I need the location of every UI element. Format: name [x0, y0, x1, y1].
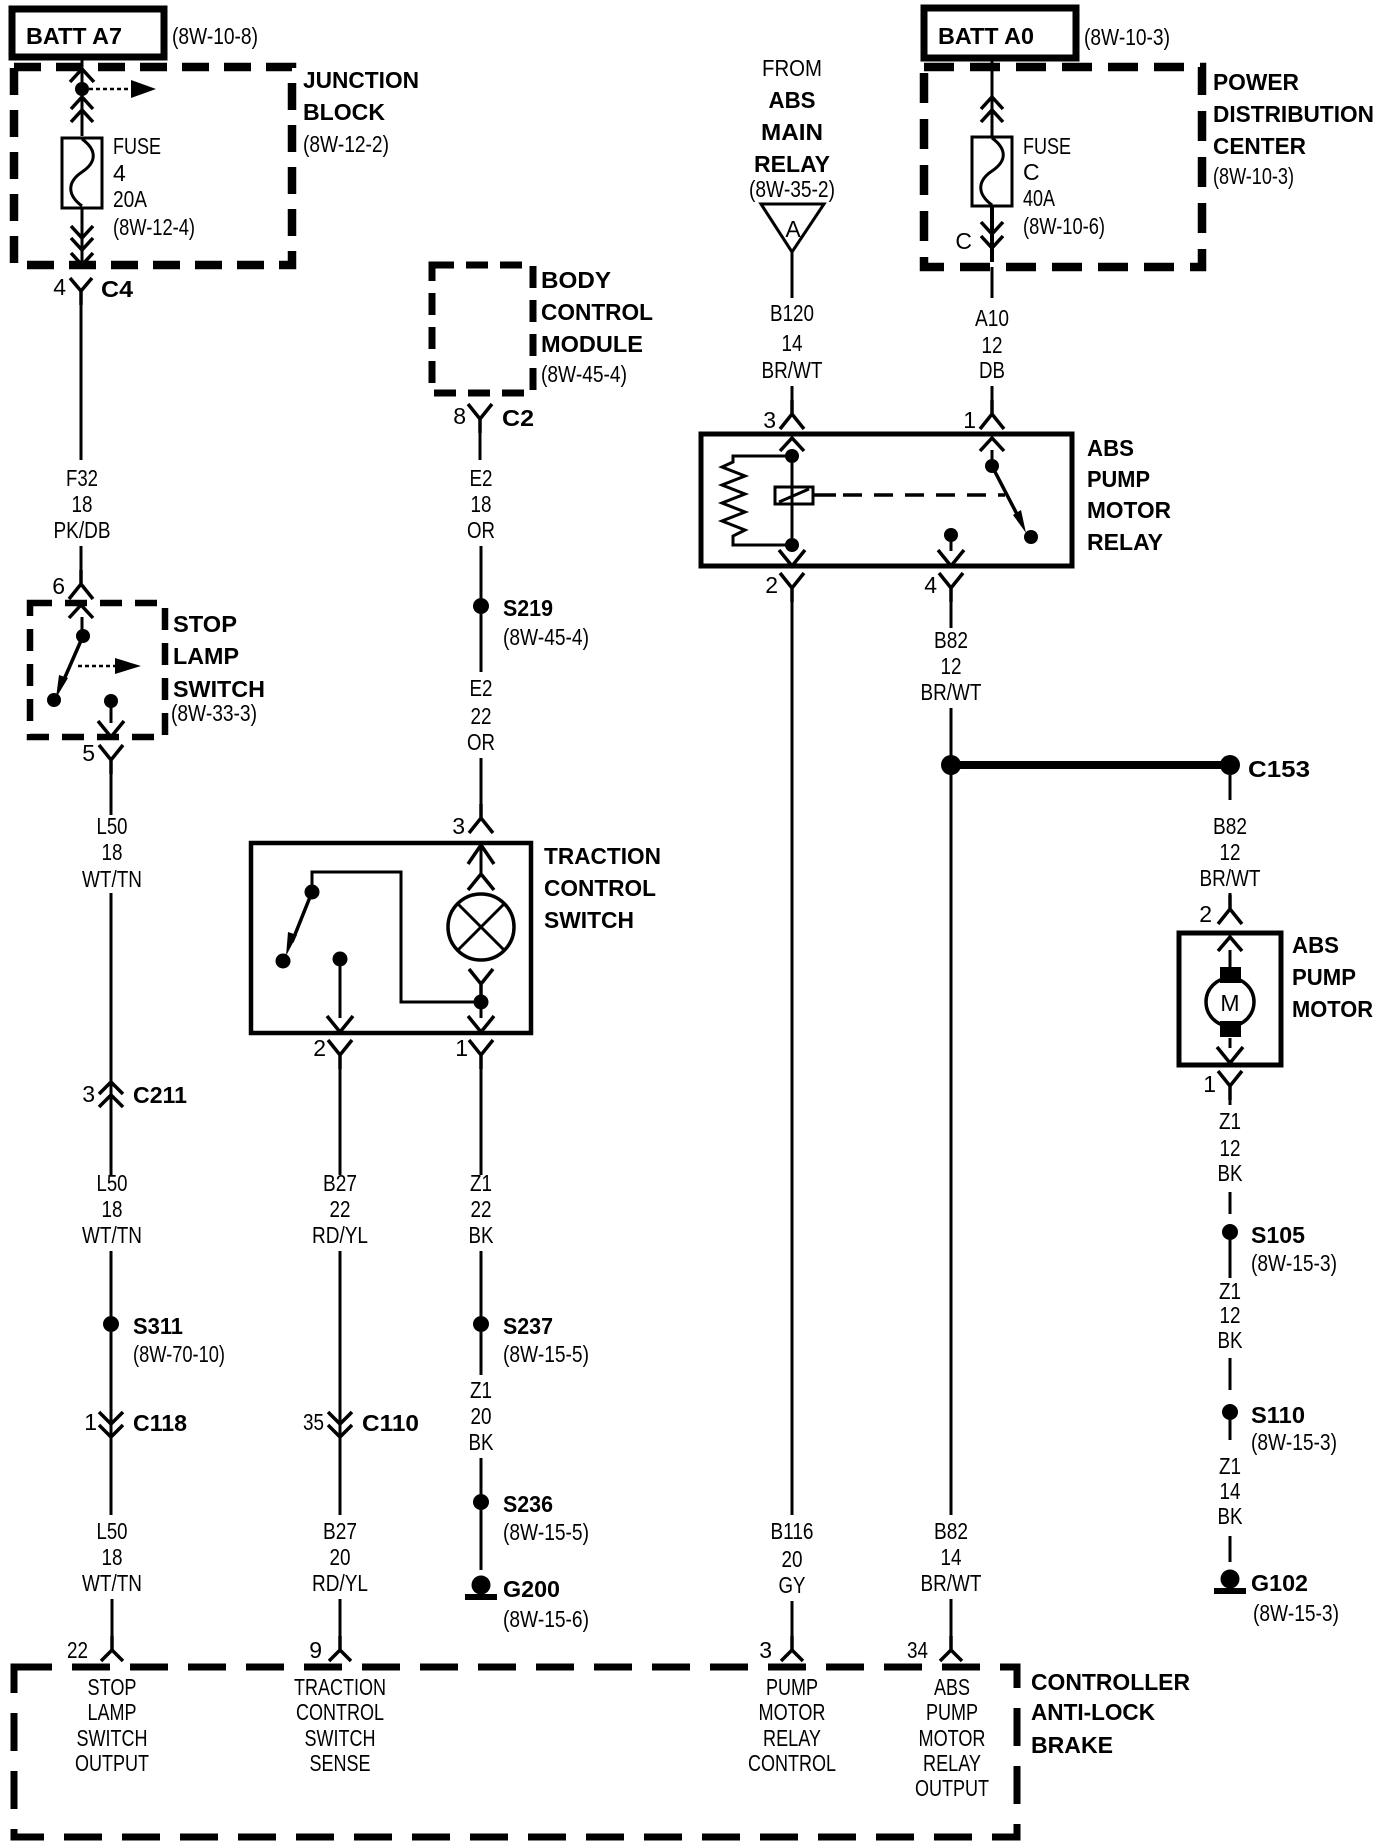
svg-text:3: 3 — [759, 1637, 772, 1663]
svg-text:(8W-15-3): (8W-15-3) — [1253, 1600, 1339, 1626]
fuse C 40A — [972, 137, 1012, 206]
svg-text:BLOCK: BLOCK — [303, 99, 385, 125]
svg-text:RD/YL: RD/YL — [312, 1222, 368, 1248]
svg-text:1: 1 — [455, 1035, 468, 1061]
svg-text:Z1: Z1 — [1219, 1453, 1241, 1479]
lamp output Y — [469, 969, 493, 1002]
svg-text:(8W-10-6): (8W-10-6) — [1023, 213, 1105, 239]
svg-text:MOTOR: MOTOR — [1292, 996, 1373, 1022]
indicator lamp — [448, 894, 514, 960]
svg-text:FUSE: FUSE — [1023, 133, 1071, 159]
svg-text:40A: 40A — [1023, 185, 1056, 211]
wire to connector C153 — [951, 761, 1230, 769]
relay pin 4 contact — [944, 528, 958, 542]
svg-text:BR/WT: BR/WT — [762, 357, 823, 383]
wire to motor pin 2 — [1229, 893, 1232, 895]
svg-text:12: 12 — [1220, 1302, 1241, 1328]
node splice in junction block — [75, 82, 89, 96]
svg-text:6: 6 — [52, 573, 65, 599]
svg-text:POWER: POWER — [1213, 69, 1299, 95]
svg-text:2: 2 — [313, 1035, 326, 1061]
chevron relay pin 3 — [780, 438, 804, 451]
svg-text:STOP: STOP — [173, 611, 237, 637]
svg-text:(8W-33-3): (8W-33-3) — [171, 700, 257, 726]
svg-text:RD/YL: RD/YL — [312, 1570, 368, 1596]
relay switch throw contact — [1024, 530, 1038, 544]
svg-text:BR/WT: BR/WT — [1200, 865, 1261, 891]
wire to stop lamp switch — [80, 546, 83, 570]
wire from BATT A7 into junction block — [81, 57, 84, 136]
stop lamp switch output contact — [104, 694, 118, 708]
chevron motor pin 2 — [1218, 937, 1242, 951]
splice S311 — [103, 1316, 119, 1332]
svg-text:RELAY: RELAY — [754, 151, 830, 177]
svg-text:RELAY: RELAY — [1087, 529, 1163, 555]
splice S219 — [473, 598, 489, 614]
motor brush top — [1220, 967, 1241, 983]
double chevron up above fuse — [71, 97, 93, 109]
wire relay pin 4 down — [950, 601, 953, 628]
wire to S236 — [480, 1458, 483, 1494]
connector C110 — [328, 1412, 352, 1424]
svg-text:LAMP: LAMP — [173, 643, 239, 669]
svg-text:S311: S311 — [133, 1313, 183, 1339]
wire to relay pin 1 — [991, 386, 994, 400]
connector C118 — [99, 1412, 123, 1424]
svg-text:ABS: ABS — [1292, 932, 1339, 958]
svg-text:MOTOR: MOTOR — [1087, 497, 1171, 523]
TCS internal wire — [312, 872, 474, 1002]
wire below S237 — [480, 1332, 483, 1375]
relay switch arm — [992, 466, 1020, 520]
TCS switch moving contact — [276, 954, 291, 969]
wire below triangle — [791, 252, 794, 298]
svg-text:A: A — [785, 216, 801, 242]
double chevron inside TCS — [468, 845, 494, 864]
svg-text:BK: BK — [1218, 1160, 1244, 1186]
ABS pump motor box — [1179, 933, 1281, 1065]
svg-text:14: 14 — [941, 1544, 962, 1570]
svg-text:4: 4 — [113, 160, 126, 186]
connector relay pin 2 — [780, 573, 804, 602]
svg-text:14: 14 — [1220, 1478, 1241, 1504]
svg-text:CONTROL: CONTROL — [544, 875, 656, 901]
svg-text:A10: A10 — [975, 305, 1009, 331]
svg-text:S105: S105 — [1251, 1222, 1305, 1248]
double chevron down below fuse — [71, 226, 93, 238]
svg-text:CONTROL: CONTROL — [541, 299, 653, 325]
TCS pole 2 contact — [333, 952, 348, 967]
splice S110 — [1222, 1404, 1238, 1420]
svg-text:BODY: BODY — [541, 267, 611, 293]
svg-text:20: 20 — [471, 1403, 492, 1429]
svg-text:(8W-10-3): (8W-10-3) — [1213, 163, 1294, 189]
TCS node — [474, 995, 489, 1010]
svg-text:22: 22 — [471, 703, 492, 729]
svg-text:MOTOR: MOTOR — [919, 1725, 986, 1751]
relay coil top node — [785, 449, 799, 463]
svg-text:12: 12 — [1220, 839, 1241, 865]
svg-text:(8W-15-6): (8W-15-6) — [503, 1606, 589, 1632]
terminal C of PDC — [981, 222, 1003, 234]
svg-text:5: 5 — [82, 740, 95, 766]
connector C153 — [1220, 755, 1240, 775]
svg-text:S219: S219 — [503, 595, 553, 621]
svg-text:DISTRIBUTION: DISTRIBUTION — [1213, 101, 1374, 127]
wire to S311 — [110, 1251, 113, 1316]
svg-text:TRACTION: TRACTION — [294, 1674, 386, 1700]
svg-text:E2: E2 — [470, 675, 493, 701]
wire to S219 — [480, 546, 483, 598]
svg-text:BK: BK — [1218, 1503, 1244, 1529]
connector C4 — [71, 253, 93, 265]
svg-text:ANTI-LOCK: ANTI-LOCK — [1031, 1699, 1155, 1725]
relay coil resistor — [722, 456, 792, 545]
wire S311 to C118 — [110, 1332, 113, 1515]
wire below C2 — [479, 433, 482, 460]
svg-text:SWITCH: SWITCH — [173, 676, 265, 702]
svg-text:3: 3 — [82, 1081, 95, 1107]
svg-text:G102: G102 — [1251, 1570, 1308, 1596]
svg-text:12: 12 — [941, 653, 962, 679]
svg-text:MAIN: MAIN — [761, 119, 823, 145]
svg-text:35: 35 — [303, 1409, 324, 1435]
connector CAB pin 22 — [101, 1636, 123, 1661]
arrow TCS pin 1 — [480, 1009, 483, 1018]
svg-text:TRACTION: TRACTION — [544, 843, 661, 869]
svg-text:4: 4 — [924, 572, 937, 598]
svg-text:E2: E2 — [470, 465, 493, 491]
connector pin 6 — [69, 570, 93, 599]
svg-text:(8W-15-3): (8W-15-3) — [1251, 1429, 1337, 1455]
svg-text:22: 22 — [330, 1196, 351, 1222]
svg-text:Z1: Z1 — [470, 1377, 492, 1403]
svg-text:18: 18 — [72, 491, 93, 517]
svg-text:M: M — [1220, 990, 1239, 1016]
wire to C153 junction — [950, 708, 953, 765]
junction block box — [14, 67, 292, 265]
svg-text:DB: DB — [979, 357, 1005, 383]
svg-text:OUTPUT: OUTPUT — [75, 1750, 149, 1776]
svg-text:CENTER: CENTER — [1213, 133, 1306, 159]
svg-text:(8W-15-3): (8W-15-3) — [1251, 1250, 1337, 1276]
wire below S105 — [1229, 1240, 1232, 1278]
svg-text:18: 18 — [471, 491, 492, 517]
svg-text:L50: L50 — [97, 1170, 128, 1196]
svg-text:WT/TN: WT/TN — [82, 1570, 142, 1596]
svg-text:CONTROLLER: CONTROLLER — [1031, 1669, 1190, 1695]
double chevron up above fuse C — [981, 97, 1003, 109]
controller anti-lock brake box — [14, 1667, 1017, 1837]
svg-text:PUMP: PUMP — [926, 1699, 978, 1725]
svg-text:2: 2 — [1199, 901, 1212, 927]
svg-text:8: 8 — [453, 403, 466, 429]
svg-text:(8W-45-4): (8W-45-4) — [541, 361, 627, 387]
svg-text:(8W-15-5): (8W-15-5) — [503, 1519, 589, 1545]
junction node at C153 — [941, 755, 961, 775]
svg-text:PUMP: PUMP — [766, 1674, 818, 1700]
svg-text:C118: C118 — [133, 1410, 187, 1436]
wire below motor — [1229, 1100, 1232, 1105]
arrow relay pin 4 — [938, 550, 964, 566]
svg-text:L50: L50 — [97, 1518, 128, 1544]
wire to G200 — [480, 1510, 483, 1570]
wire to CAB pin 3 — [791, 1601, 794, 1640]
svg-text:JUNCTION: JUNCTION — [303, 67, 419, 93]
wire below S219 — [480, 614, 483, 672]
svg-text:(8W-10-8): (8W-10-8) — [172, 23, 258, 49]
chevron inside stop lamp switch — [69, 605, 93, 618]
svg-text:MOTOR: MOTOR — [759, 1699, 826, 1725]
chevron relay pin 1 — [980, 438, 1004, 451]
svg-text:B82: B82 — [934, 627, 968, 653]
svg-text:(8W-10-3): (8W-10-3) — [1084, 24, 1170, 50]
svg-text:B27: B27 — [323, 1518, 357, 1544]
wire to CAB pin 9 — [339, 1599, 342, 1640]
arrow to pin 5 — [98, 721, 124, 737]
svg-text:1: 1 — [84, 1409, 97, 1435]
svg-text:C4: C4 — [101, 276, 133, 302]
svg-text:3: 3 — [452, 813, 465, 839]
fuse 4 20A — [62, 138, 102, 208]
svg-text:STOP: STOP — [88, 1674, 137, 1700]
svg-text:(8W-35-2): (8W-35-2) — [749, 176, 835, 202]
connector motor pin 1 — [1218, 1071, 1242, 1100]
svg-text:20: 20 — [330, 1544, 351, 1570]
stop lamp switch common contact — [76, 629, 90, 643]
body control module box — [432, 265, 533, 393]
arrow relay pin 2 — [779, 550, 805, 566]
connector relay pin 1 — [980, 400, 1004, 429]
svg-text:ABS: ABS — [1087, 435, 1134, 461]
motor M — [1206, 978, 1254, 1026]
svg-text:C211: C211 — [133, 1082, 187, 1108]
svg-text:PK/DB: PK/DB — [54, 517, 111, 543]
svg-text:1: 1 — [963, 407, 976, 433]
wire to TCS pin 3 — [480, 758, 483, 804]
svg-text:C2: C2 — [502, 405, 534, 431]
svg-text:BATT A7: BATT A7 — [26, 23, 122, 49]
svg-text:ABS: ABS — [934, 1674, 970, 1700]
svg-text:OUTPUT: OUTPUT — [915, 1775, 989, 1801]
relay coil winding — [791, 456, 794, 545]
battery feed BATT A0 box — [924, 8, 1076, 58]
svg-text:4: 4 — [53, 274, 66, 300]
wire to S110 — [1229, 1358, 1232, 1390]
arrow into junction block — [70, 69, 94, 82]
connector TCS pin 3 — [469, 804, 493, 833]
stop lamp switch box — [30, 603, 165, 737]
wire B27 upper — [339, 1069, 342, 1175]
ground G200 — [472, 1576, 491, 1595]
svg-text:22: 22 — [471, 1196, 492, 1222]
off-page connector A triangle — [761, 204, 824, 252]
connector C2 — [468, 404, 492, 433]
svg-text:PUMP: PUMP — [1087, 466, 1150, 492]
svg-text:FROM: FROM — [762, 55, 822, 81]
svg-text:B82: B82 — [1213, 813, 1247, 839]
wire to S105 — [1229, 1192, 1232, 1214]
svg-text:9: 9 — [309, 1637, 322, 1663]
svg-text:BK: BK — [469, 1222, 495, 1248]
TCS switch arm — [292, 892, 312, 942]
svg-text:B120: B120 — [770, 300, 814, 326]
wire below C153 — [1229, 775, 1232, 800]
svg-text:RELAY: RELAY — [763, 1725, 821, 1751]
svg-text:ABS: ABS — [769, 87, 816, 113]
svg-text:12: 12 — [982, 332, 1003, 358]
svg-text:RELAY: RELAY — [923, 1750, 981, 1776]
svg-text:BRAKE: BRAKE — [1031, 1732, 1113, 1758]
connector relay pin 3 — [780, 400, 804, 429]
svg-text:SENSE: SENSE — [310, 1750, 371, 1776]
svg-text:C: C — [955, 228, 972, 254]
svg-text:B27: B27 — [323, 1170, 357, 1196]
svg-text:12: 12 — [1220, 1135, 1241, 1161]
svg-text:GY: GY — [779, 1572, 806, 1598]
svg-text:OR: OR — [467, 729, 495, 755]
stop lamp switch moving contact — [47, 693, 61, 707]
traction control switch box — [251, 843, 531, 1033]
svg-text:G200: G200 — [503, 1576, 560, 1602]
wire to CAB pin 22 — [111, 1599, 114, 1640]
connector pin 5 — [99, 745, 123, 774]
svg-text:Z1: Z1 — [1219, 1278, 1241, 1304]
svg-text:BR/WT: BR/WT — [921, 1570, 982, 1596]
svg-text:CONTROL: CONTROL — [296, 1699, 384, 1725]
svg-text:1: 1 — [1203, 1071, 1216, 1097]
svg-text:L50: L50 — [97, 813, 128, 839]
stop lamp switch actuation arrow — [78, 665, 116, 668]
splice S237 — [473, 1316, 489, 1332]
svg-text:(8W-70-10): (8W-70-10) — [133, 1341, 225, 1367]
svg-text:PUMP: PUMP — [1292, 964, 1356, 990]
wire L50 upper — [110, 774, 113, 815]
connector C211 — [99, 1082, 123, 1094]
svg-text:Z1: Z1 — [470, 1170, 492, 1196]
power distribution center box — [924, 67, 1202, 267]
svg-text:(8W-15-5): (8W-15-5) — [503, 1341, 589, 1367]
ground G102 — [1221, 1570, 1240, 1589]
connector CAB pin 9 — [329, 1636, 351, 1661]
connector TCS pin 1 — [469, 1040, 493, 1069]
svg-text:CONTROL: CONTROL — [748, 1750, 836, 1776]
svg-text:BR/WT: BR/WT — [921, 679, 982, 705]
svg-text:BATT A0: BATT A0 — [938, 23, 1034, 49]
svg-text:SWITCH: SWITCH — [305, 1725, 376, 1751]
relay coil bottom node — [785, 538, 799, 552]
svg-text:BK: BK — [1218, 1327, 1244, 1353]
svg-text:S236: S236 — [503, 1491, 553, 1517]
svg-text:SWITCH: SWITCH — [544, 907, 634, 933]
svg-text:LAMP: LAMP — [88, 1699, 137, 1725]
wire ABS pump motor relay output — [950, 765, 953, 1515]
connector relay pin 4 — [939, 573, 963, 602]
wire from BATT A0 — [991, 58, 994, 136]
svg-text:34: 34 — [907, 1637, 928, 1663]
svg-text:WT/TN: WT/TN — [82, 866, 142, 892]
svg-text:B116: B116 — [771, 1518, 814, 1544]
svg-text:3: 3 — [763, 407, 776, 433]
connector CAB pin 34 — [940, 1636, 962, 1661]
splice S236 — [473, 1494, 489, 1510]
svg-text:C: C — [1023, 159, 1040, 185]
wire below fuse — [81, 208, 84, 262]
svg-text:20A: 20A — [113, 186, 148, 212]
svg-text:14: 14 — [782, 330, 803, 356]
motor brush bottom — [1220, 1021, 1241, 1037]
wire to relay pin 3 — [791, 386, 794, 400]
wire below fuse C — [990, 206, 994, 262]
svg-text:(8W-12-2): (8W-12-2) — [303, 131, 389, 157]
connector motor pin 2 — [1218, 895, 1242, 924]
arrow TCS pin 2 — [327, 1016, 353, 1032]
svg-text:2: 2 — [765, 572, 778, 598]
wire to S237 — [480, 1251, 483, 1316]
wire to CAB pin 34 — [950, 1599, 953, 1640]
svg-text:C110: C110 — [362, 1410, 419, 1436]
svg-text:18: 18 — [102, 1196, 123, 1222]
svg-text:18: 18 — [102, 1544, 123, 1570]
wire below S110 — [1229, 1420, 1232, 1440]
relay actuation dashed link — [813, 493, 836, 497]
svg-text:Z1: Z1 — [1219, 1108, 1241, 1134]
svg-text:22: 22 — [67, 1637, 88, 1663]
svg-text:18: 18 — [102, 839, 123, 865]
wire to G102 — [1229, 1536, 1232, 1562]
svg-text:(8W-45-4): (8W-45-4) — [503, 624, 589, 650]
svg-text:F32: F32 — [66, 465, 98, 491]
svg-text:MODULE: MODULE — [541, 331, 643, 357]
svg-text:C153: C153 — [1248, 756, 1310, 782]
svg-text:FUSE: FUSE — [113, 133, 161, 159]
wire B27 to C110 — [339, 1251, 342, 1515]
svg-text:BK: BK — [469, 1429, 495, 1455]
wire L50 to C211 — [110, 893, 113, 1175]
fused feed arrow — [82, 88, 132, 91]
wire F32 — [80, 300, 83, 460]
relay switch fixed contact — [985, 459, 999, 473]
ABS pump motor relay box — [701, 434, 1072, 566]
splice S105 — [1222, 1224, 1238, 1240]
connector TCS pin 2 — [328, 1040, 352, 1069]
svg-text:B82: B82 — [934, 1518, 968, 1544]
svg-text:20: 20 — [782, 1546, 803, 1572]
svg-text:WT/TN: WT/TN — [82, 1222, 142, 1248]
wire Z1 upper — [480, 1069, 483, 1175]
connector CAB pin 3 — [781, 1636, 803, 1661]
arrow motor pin 1 — [1229, 1038, 1232, 1048]
TCS switch fixed contact — [305, 885, 320, 900]
svg-text:(8W-12-4): (8W-12-4) — [113, 214, 195, 240]
svg-text:SWITCH: SWITCH — [77, 1725, 148, 1751]
svg-text:S237: S237 — [503, 1313, 553, 1339]
svg-text:S110: S110 — [1251, 1402, 1305, 1428]
stop lamp switch arm — [62, 636, 83, 684]
svg-text:OR: OR — [467, 517, 495, 543]
wire A10 — [991, 267, 994, 298]
wire pump motor relay control — [791, 601, 794, 1515]
battery feed BATT A7 box — [12, 9, 164, 57]
